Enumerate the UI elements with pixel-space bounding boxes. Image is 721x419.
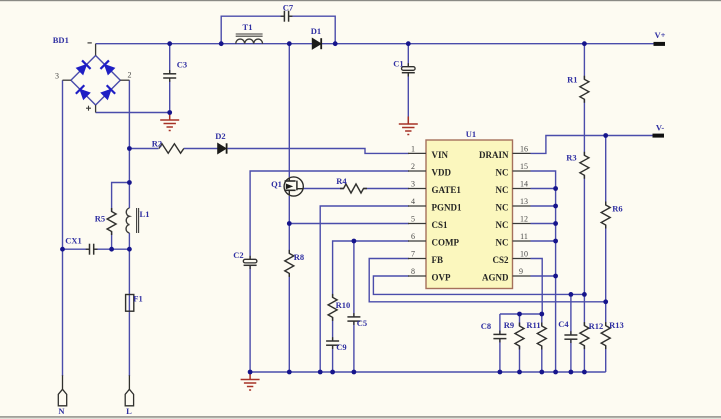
wire C8 bottom lead xyxy=(499,339,501,372)
svg-text:R2: R2 xyxy=(152,138,162,148)
wire PGND1 pin 4 branch xyxy=(320,206,409,372)
svg-text:R12: R12 xyxy=(589,321,604,331)
svg-text:NC: NC xyxy=(496,168,509,178)
resistor R11 xyxy=(537,323,546,350)
wire Q1 source down xyxy=(288,196,290,254)
inductor L1 core xyxy=(137,208,139,233)
transformer T1 winding xyxy=(236,39,263,44)
capacitor CX1 xyxy=(86,244,98,255)
svg-text:7: 7 xyxy=(411,250,415,259)
svg-text:2: 2 xyxy=(411,162,415,171)
bridge diode top-right xyxy=(100,60,115,75)
inductor L1 winding xyxy=(126,208,129,233)
svg-text:8: 8 xyxy=(411,267,415,276)
capacitor C8 xyxy=(493,331,506,343)
wire NC pin 11 stub xyxy=(531,240,556,242)
fuse F1 xyxy=(126,295,134,312)
wire top rail V+ bus xyxy=(96,43,655,45)
svg-text:C1: C1 xyxy=(393,59,403,69)
bridge diode bottom-right xyxy=(100,85,115,100)
svg-text:VDD: VDD xyxy=(432,168,452,178)
wire R2 to D2 xyxy=(184,148,218,150)
svg-text:C7: C7 xyxy=(283,3,294,13)
svg-text:4: 4 xyxy=(411,197,415,206)
svg-text:OVP: OVP xyxy=(432,273,452,283)
wire R12 bottom to ground rail xyxy=(583,346,585,372)
wire R1 top lead from V+ rail xyxy=(583,44,585,80)
wire AGND pin 9 stub xyxy=(531,275,556,277)
wire C3 bottom lead xyxy=(169,80,171,112)
svg-text:CS1: CS1 xyxy=(432,220,449,230)
svg-text:3: 3 xyxy=(411,180,415,189)
IC U1 left pin stubs 1-8 xyxy=(408,153,426,276)
transformer T1 core xyxy=(236,34,263,36)
bridge plus sign xyxy=(86,106,91,111)
svg-text:R9: R9 xyxy=(504,320,514,330)
resistor R2 xyxy=(159,144,184,153)
resistor R4 xyxy=(340,184,367,193)
capacitor C4 xyxy=(564,331,577,343)
svg-text:R3: R3 xyxy=(566,153,576,163)
wire D2 to VIN pin 1 xyxy=(228,149,409,154)
svg-text:15: 15 xyxy=(520,162,528,171)
wire N line vertical xyxy=(62,80,64,376)
terminal V+ bar xyxy=(654,42,666,46)
svg-text:C9: C9 xyxy=(336,342,346,352)
wire C7 snubber branch xyxy=(221,16,284,44)
svg-text:C3: C3 xyxy=(177,60,187,70)
capacitor C7 xyxy=(281,11,293,22)
wire NC pin 12 stub xyxy=(531,223,556,225)
wire R13 bottom to ground rail xyxy=(605,346,607,372)
svg-text:NC: NC xyxy=(496,203,509,213)
svg-text:R10: R10 xyxy=(336,300,351,310)
svg-text:CX1: CX1 xyxy=(65,236,82,246)
svg-text:R11: R11 xyxy=(526,320,540,330)
wire R4 to GATE1 pin 3 xyxy=(364,188,410,190)
svg-text:R13: R13 xyxy=(609,320,624,330)
wire COMP pin 6 to R10 xyxy=(333,241,409,297)
svg-text:CS2: CS2 xyxy=(492,255,509,265)
svg-text:V+: V+ xyxy=(655,30,666,40)
svg-text:GATE1: GATE1 xyxy=(432,185,462,195)
wire R10 to C9 xyxy=(332,317,334,341)
svg-text:R5: R5 xyxy=(95,214,105,224)
wire C4 top lead from OVP node xyxy=(570,294,572,335)
svg-text:D2: D2 xyxy=(215,131,225,141)
wire R13 top lead xyxy=(605,302,607,326)
wire C7 right branch xyxy=(289,16,335,44)
resistor R13 xyxy=(601,322,610,349)
wire C3 top lead xyxy=(169,44,171,74)
svg-text:11: 11 xyxy=(520,232,528,241)
svg-text:C5: C5 xyxy=(357,318,367,328)
frame bottom edge xyxy=(0,416,721,418)
wire OVP pin 8 loop to R3 R12 node xyxy=(373,276,584,294)
wire C2 bottom to ground rail xyxy=(249,265,251,372)
svg-text:C8: C8 xyxy=(481,321,491,331)
wire C8 R9 R11 top node xyxy=(500,313,542,315)
svg-text:T1: T1 xyxy=(243,22,253,32)
svg-text:14: 14 xyxy=(520,180,528,189)
wire R1 to R3 xyxy=(583,99,585,155)
svg-text:C2: C2 xyxy=(233,250,243,260)
wire R2 left lead xyxy=(129,148,158,150)
wire NC pin 15 bus vertical xyxy=(531,171,556,372)
wire DRAIN pin 16 to V- rail xyxy=(531,136,653,154)
svg-text:2: 2 xyxy=(128,70,132,79)
wire R9 top lead xyxy=(519,314,521,326)
svg-text:AGND: AGND xyxy=(482,273,509,283)
wire CS2 pin 10 to sense node xyxy=(531,259,543,315)
wire VDD pin 2 to C2 xyxy=(250,171,409,260)
resistor R12 xyxy=(580,322,589,349)
svg-text:N: N xyxy=(58,406,65,416)
wire R12 top lead xyxy=(583,294,585,325)
svg-text:U1: U1 xyxy=(466,129,476,139)
connector L xyxy=(125,375,133,406)
wire R6 top lead from V- rail xyxy=(605,136,607,206)
ground below C1 xyxy=(399,117,418,135)
svg-text:DRAIN: DRAIN xyxy=(479,150,509,160)
svg-text:12: 12 xyxy=(520,215,528,224)
ground below bottom rail xyxy=(241,372,260,390)
svg-text:R4: R4 xyxy=(336,176,347,186)
resistor R5 xyxy=(107,208,116,235)
wire L line lower vertical xyxy=(128,233,130,376)
frame top edge xyxy=(0,0,721,1)
resistor R1 xyxy=(580,76,589,103)
wire NC pin 13 stub xyxy=(531,205,556,207)
svg-text:PGND1: PGND1 xyxy=(432,203,462,213)
svg-text:R6: R6 xyxy=(612,204,622,214)
svg-text:NC: NC xyxy=(496,185,509,195)
svg-text:Q1: Q1 xyxy=(271,179,282,189)
svg-text:COMP: COMP xyxy=(432,238,460,248)
capacitor C2 polarized xyxy=(243,256,257,269)
wire R3 to OVP node xyxy=(583,175,585,294)
wire bridge plus to ground node xyxy=(96,112,170,114)
wire C8 top lead xyxy=(499,314,501,334)
diode D1 xyxy=(312,38,321,49)
svg-text:L: L xyxy=(126,406,132,416)
resistor R10 xyxy=(328,294,337,321)
connector N xyxy=(58,375,66,406)
svg-text:C4: C4 xyxy=(558,319,569,329)
svg-text:L1: L1 xyxy=(140,209,150,219)
wire R6 to FB node xyxy=(605,225,607,302)
wire C1 bottom lead to ground xyxy=(407,73,409,124)
svg-text:1: 1 xyxy=(411,144,415,153)
wire C4 bottom to ground rail xyxy=(570,339,572,372)
bridge diode top-left xyxy=(76,60,91,75)
svg-text:FB: FB xyxy=(432,255,444,265)
wire CX1 left lead xyxy=(63,248,90,250)
svg-text:10: 10 xyxy=(520,250,528,259)
wire R11 top lead xyxy=(541,314,543,326)
wire Q1 gate to R4 xyxy=(303,188,343,190)
svg-text:F1: F1 xyxy=(133,294,142,304)
wire NC pin 14 stub xyxy=(531,188,556,190)
svg-text:6: 6 xyxy=(411,232,415,241)
wire CS1 pin 5 to Q1 source xyxy=(289,223,409,225)
wire R8 bottom to ground rail xyxy=(288,273,290,372)
wire R5 top jog xyxy=(112,183,130,212)
wire C5 bottom to ground rail xyxy=(353,321,355,372)
wire C5 top branch xyxy=(353,241,355,317)
bridge BD1 pin stubs xyxy=(63,44,130,113)
svg-text:BD1: BD1 xyxy=(53,35,69,45)
svg-text:R8: R8 xyxy=(294,252,304,262)
resistor R3 xyxy=(580,152,589,179)
resistor R6 xyxy=(601,202,610,229)
svg-text:13: 13 xyxy=(520,197,528,206)
wire Q1 drain to top rail xyxy=(288,44,290,178)
svg-text:9: 9 xyxy=(519,267,523,276)
resistor R8 xyxy=(285,250,294,277)
svg-text:R1: R1 xyxy=(567,75,577,85)
wire ground rail bottom xyxy=(250,371,606,373)
svg-text:VIN: VIN xyxy=(432,150,449,160)
svg-text:V-: V- xyxy=(656,123,665,133)
capacitor C3 xyxy=(163,70,176,82)
terminal V- bar xyxy=(653,134,665,138)
IC U1 right pin stubs 16-9 xyxy=(513,153,531,276)
transistor Q1 MOSFET xyxy=(284,177,303,196)
svg-text:16: 16 xyxy=(520,144,528,153)
ground below C3 xyxy=(160,113,179,131)
svg-text:5: 5 xyxy=(411,215,415,224)
wire FB pin 7 loop to R6 R13 node xyxy=(369,259,606,302)
bridge diode bottom-left xyxy=(76,85,91,100)
bridge minus sign xyxy=(88,42,92,44)
wire C1 top lead xyxy=(407,44,409,67)
IC U1 body xyxy=(426,140,513,289)
wire C9 to ground rail xyxy=(332,345,334,372)
svg-text:NC: NC xyxy=(496,238,509,248)
svg-text:NC: NC xyxy=(496,220,509,230)
diode D2 xyxy=(218,143,227,153)
capacitor C1 polarized xyxy=(402,63,416,76)
wire CX1 right lead xyxy=(94,248,130,250)
wire L line upper vertical xyxy=(128,80,130,208)
capacitor C9 xyxy=(326,337,339,349)
svg-text:D1: D1 xyxy=(311,26,321,36)
wire R9 bottom lead xyxy=(519,346,521,372)
svg-text:3: 3 xyxy=(55,71,59,80)
wire R5 bottom lead xyxy=(111,232,113,250)
bridge rectifier BD1 body xyxy=(71,56,120,106)
capacitor C5 xyxy=(347,313,360,325)
wire R11 bottom lead xyxy=(541,346,543,372)
resistor R9 xyxy=(515,323,524,350)
